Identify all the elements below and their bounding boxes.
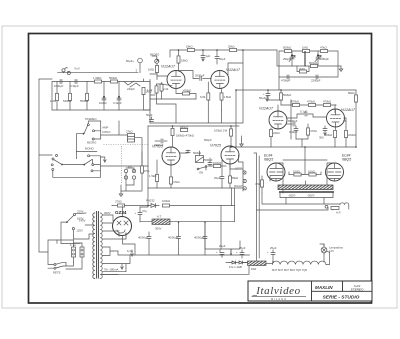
label 3+W STEREO — [351, 284, 364, 292]
resistor 27kΩ pair b — [127, 135, 142, 152]
capacitor 25µF cathode V6 — [220, 160, 224, 188]
label EL84 6BQ5 — [264, 154, 273, 162]
wire from V2 to network — [277, 50, 279, 66]
resistor 100Ω wirewound — [248, 261, 273, 266]
svg-text:10Ω: 10Ω — [251, 267, 256, 271]
svg-text:FONO: FONO — [102, 130, 111, 134]
wire mid join — [147, 188, 149, 206]
svg-text:MONO: MONO — [85, 147, 95, 151]
phono jack P3 — [132, 169, 135, 172]
capacitor 6800pF — [287, 122, 295, 126]
ground sw2 — [100, 157, 106, 162]
trimmer capacitor 25kpF — [289, 51, 295, 66]
heater winding chain — [273, 261, 326, 264]
fuse F1 — [72, 243, 76, 262]
svg-text:50µF: 50µF — [259, 96, 266, 100]
resistor 500kΩ mid — [310, 65, 317, 68]
capacitor 3.3kpF — [294, 126, 298, 139]
svg-text:1µF: 1µF — [206, 54, 211, 58]
wire HT rail — [170, 50, 277, 90]
capacitor 0.1µF coupling — [287, 100, 327, 139]
svg-text:½7025: ½7025 — [152, 145, 163, 149]
svg-text:80kΩ: 80kΩ — [348, 91, 355, 95]
svg-text:-3007-: -3007- — [307, 194, 315, 198]
svg-text:50kpF: 50kpF — [204, 138, 212, 142]
label 70V 180mA arrow — [104, 264, 123, 272]
resistor 18kΩ rail — [187, 49, 194, 52]
wire to speaker — [262, 190, 328, 205]
svg-text:25µF: 25µF — [270, 246, 277, 250]
switch S-tone — [197, 166, 207, 170]
svg-text:3.3kpF: 3.3kpF — [289, 130, 298, 134]
svg-text:500kΩ: 500kΩ — [109, 76, 117, 80]
svg-text:2000pF: 2000pF — [195, 74, 205, 78]
ground mid — [240, 141, 244, 146]
svg-text:470kpF: 470kpF — [281, 79, 291, 83]
capacitor 50µF can — [126, 58, 142, 72]
wire filament 70V — [102, 273, 118, 275]
label Lampadina 12V — [329, 246, 343, 254]
title block box — [248, 281, 372, 301]
svg-text:100kΩ: 100kΩ — [162, 199, 170, 203]
svg-text:F 1A: F 1A — [70, 243, 76, 247]
capacitor 2000pF coupling — [179, 71, 212, 81]
resistor 470Ω cathode — [261, 176, 264, 193]
phono jack P2 — [124, 176, 127, 179]
svg-text:300: 300 — [319, 136, 324, 140]
resistor 68kΩ — [229, 164, 232, 189]
wire bottom long bus — [101, 253, 330, 275]
wire mains lower — [57, 240, 82, 269]
svg-text:500kΩ: 500kΩ — [283, 46, 291, 50]
capacitor 50µF to ground — [215, 50, 219, 64]
wire verticals — [57, 79, 144, 110]
svg-text:1MΩ: 1MΩ — [50, 99, 56, 103]
border frame — [29, 34, 372, 304]
wire sw3 — [39, 155, 84, 177]
resistor 27kΩ pair a — [127, 134, 134, 137]
svg-text:2380pF: 2380pF — [320, 57, 330, 61]
capacitor 25µF V4 cathode — [323, 126, 327, 135]
svg-text:6800pF: 6800pF — [288, 119, 298, 123]
svg-text:2500pF: 2500pF — [203, 158, 213, 162]
svg-text:1MΩ: 1MΩ — [302, 46, 308, 50]
resistor 470Ω — [296, 124, 310, 139]
svg-text:1MΩ: 1MΩ — [148, 68, 154, 72]
svg-text:220kΩ: 220kΩ — [348, 133, 356, 137]
mains switch DPST — [48, 252, 66, 269]
tube V3 half 12AU7 — [269, 111, 287, 129]
resistor 47kΩ — [320, 50, 327, 53]
tube V2 half 12AU7 — [211, 71, 229, 89]
capacitor 25µF b — [236, 250, 244, 258]
resistor 1.5kΩ cathode V1 — [155, 84, 158, 99]
wire feedback — [257, 208, 329, 211]
capacitor 3.3kpF vertical — [117, 96, 121, 100]
tube V1 half 12AU7 — [167, 71, 185, 89]
capacitor 50µF left — [146, 113, 154, 121]
wire sw2 bottom — [53, 176, 100, 178]
svg-text:ON: ON — [199, 171, 203, 175]
svg-text:1.5MΩ: 1.5MΩ — [93, 76, 101, 80]
wire stage bottom bus — [148, 80, 243, 127]
output transformer T2 secondary — [279, 191, 334, 193]
speaker terminal — [325, 205, 328, 208]
jack RIGHT — [243, 187, 246, 190]
resistor 1.5kΩ cathode V5 — [156, 160, 159, 188]
capacitor +47µF 300V — [135, 207, 143, 219]
pot MICRO trimmer — [155, 59, 159, 63]
svg-text:GZ34: GZ34 — [115, 210, 127, 215]
wire row — [268, 100, 336, 105]
wire ground GZ — [123, 236, 136, 255]
svg-text:125V: 125V — [76, 229, 83, 233]
resistor 680kΩ horizontal — [180, 129, 187, 132]
mains selector contact SW5 — [72, 225, 92, 239]
svg-text:70+ 180mA: 70+ 180mA — [104, 268, 119, 272]
svg-text:470kΩ: 470kΩ — [307, 100, 315, 104]
jack LEFT — [243, 171, 246, 174]
phono jack P1 — [124, 169, 127, 172]
tube V8 EL84 — [267, 163, 285, 181]
wire transformer taps — [280, 181, 333, 204]
svg-text:47µ: 47µ — [142, 209, 147, 213]
svg-text:50µF+: 50µF+ — [126, 59, 134, 63]
resistor 22kΩ cathode V3 — [270, 128, 273, 147]
capacitor 470kpF — [287, 75, 289, 79]
svg-text:6,3A: 6,3A — [127, 249, 133, 253]
resistor 100kΩ horizontal — [208, 165, 226, 168]
svg-text:6.8k: 6.8k — [200, 95, 206, 99]
switch SW3 — [51, 155, 63, 171]
tube V5 half 7025 — [162, 147, 180, 165]
svg-text:RETE: RETE — [53, 271, 61, 275]
resistor 100Ω screen a — [289, 173, 303, 176]
capacitor 100kpF — [60, 80, 62, 84]
svg-text:STEREO: STEREO — [85, 117, 97, 121]
svg-text:MILANO: MILANO — [271, 297, 287, 301]
svg-text:27kΩ: 27kΩ — [126, 130, 133, 134]
shield dotted — [104, 144, 149, 146]
tube V7 GZ34 rectifier — [113, 206, 132, 236]
wire sw1 out — [101, 121, 128, 135]
svg-text:300V: 300V — [104, 211, 111, 215]
svg-text:RIGHT: RIGHT — [234, 184, 243, 188]
svg-text:7mV: 7mV — [74, 67, 80, 71]
svg-text:MAXLIN: MAXLIN — [315, 285, 333, 290]
svg-text:470kΩ: 470kΩ — [323, 100, 331, 104]
resistor 470kΩ b — [308, 104, 315, 107]
svg-text:470Ω: 470Ω — [310, 129, 317, 133]
wire B+ vertical right — [221, 206, 231, 256]
wire to preamp — [100, 152, 148, 166]
resistor 680kΩ grid V2 — [207, 82, 210, 110]
svg-text:240pF: 240pF — [127, 87, 135, 91]
capacitor 3300pF — [155, 139, 167, 143]
svg-text:100kΩ: 100kΩ — [213, 161, 221, 165]
resistor 20kΩ rail — [229, 49, 236, 52]
wire phono — [121, 168, 142, 191]
svg-text:18kΩ: 18kΩ — [181, 59, 188, 63]
resistor 470kΩ vertical phono — [141, 152, 144, 190]
label EL84 6BQ5 — [342, 154, 351, 162]
resistor 47kΩ — [170, 165, 173, 189]
svg-text:2.2k: 2.2k — [163, 87, 169, 91]
pilot lamp — [321, 244, 327, 262]
input jack J1 — [62, 68, 68, 72]
svg-text:SERIE - STUDIO: SERIE - STUDIO — [323, 295, 360, 301]
svg-text:40/50µF: 40/50µF — [194, 236, 205, 240]
resistor 220kΩ — [344, 118, 348, 147]
input jack J2 — [67, 71, 70, 74]
svg-text:20kΩ: 20kΩ — [228, 45, 235, 49]
switch SW2 — [83, 155, 94, 172]
resistor A.T. wirewound — [152, 219, 170, 225]
svg-text:550kΩ: 550kΩ — [80, 99, 88, 103]
wire heater bus — [130, 241, 250, 257]
tube V4 half 12AU7 — [327, 109, 345, 127]
svg-text:140V: 140V — [79, 219, 86, 223]
resistor 100Ω screen b — [307, 173, 321, 176]
wire lamp — [320, 244, 330, 254]
wire HT bus mid — [231, 105, 356, 147]
svg-text:½7025: ½7025 — [210, 144, 221, 148]
wire mains — [39, 155, 80, 252]
resistor 100kΩ cathode V4 — [334, 127, 337, 148]
speaker coil — [328, 203, 349, 210]
svg-text:A.T.: A.T. — [157, 215, 162, 219]
wire HT secondary to GZ34 — [102, 215, 126, 255]
transformer T1 secondary winding — [100, 213, 102, 279]
resistor 18kΩ plate V1 — [177, 56, 180, 71]
svg-text:68kΩ: 68kΩ — [232, 176, 239, 180]
wire vertical bus pair — [226, 153, 259, 263]
wire grid feed — [150, 56, 157, 74]
wire filament 6.3A — [102, 251, 130, 272]
capacitor 25µF a — [216, 250, 224, 257]
svg-text:½12AU7: ½12AU7 — [259, 107, 274, 111]
svg-text:PH232: PH232 — [146, 199, 155, 203]
svg-text:½12AU7: ½12AU7 — [161, 65, 176, 69]
capacitor 40/50µF c — [203, 222, 207, 255]
wire jack feed — [230, 155, 243, 191]
svg-text:500kΩ: 500kΩ — [309, 61, 317, 65]
resistor 500kΩ — [284, 50, 291, 53]
node dots — [147, 49, 357, 263]
ground arrow 50uF — [266, 96, 269, 101]
svg-text:3.3kpF: 3.3kpF — [70, 84, 79, 88]
transformer T1 core — [97, 211, 99, 279]
svg-text:470kΩ: 470kΩ — [291, 100, 299, 104]
wire network to next stage — [236, 77, 356, 147]
svg-text:PU: PU — [128, 165, 132, 169]
jack MIDDLE — [243, 179, 246, 182]
svg-text:40/50µF: 40/50µF — [168, 236, 179, 240]
pot 500kΩ balance — [196, 151, 204, 163]
resistor 2.2kΩ cathode V1b — [157, 83, 173, 100]
svg-text:220V: 220V — [77, 210, 84, 214]
resistor 100kΩ — [162, 204, 234, 207]
svg-text:F.G.1 4HB: F.G.1 4HB — [229, 265, 242, 269]
tube V6 half 7025 — [221, 146, 239, 164]
resistor 1MΩ — [302, 50, 309, 53]
capacitor 40/50µF a — [147, 232, 151, 255]
trimmer capacitor 2380pF — [315, 51, 321, 66]
capacitor 2200pF — [316, 75, 318, 79]
wire plate V2 to rail — [228, 63, 243, 75]
diode D1 — [230, 261, 237, 264]
wire mid vertical — [304, 51, 306, 67]
svg-text:2MΩ: 2MΩ — [299, 67, 305, 71]
capacitor 40/50µF b — [177, 222, 181, 255]
resistor 1MΩ vertical — [56, 93, 59, 100]
wire sw1 to sw2 — [76, 134, 83, 152]
svg-text:25µF: 25µF — [214, 176, 221, 180]
resistor 1MΩ grid V1 — [156, 63, 168, 79]
resistor 100kΩ vertical — [230, 129, 233, 136]
wire screens — [289, 160, 321, 175]
resistor 1.5kΩ cathode V2 — [220, 88, 223, 110]
svg-text:A.P.: A.P. — [336, 211, 341, 215]
svg-text:540kΩ: 540kΩ — [63, 99, 71, 103]
svg-text:3.3kpF: 3.3kpF — [113, 101, 122, 105]
svg-text:STEREO: STEREO — [351, 287, 364, 291]
wire B plus — [112, 205, 123, 208]
capacitor 25µF c — [267, 250, 275, 261]
resistor 80kΩ right — [355, 90, 358, 147]
ground tone network — [339, 66, 343, 71]
wire ground bus left — [39, 79, 52, 155]
resistor 270Ω — [112, 204, 148, 207]
svg-text:50µF: 50µF — [146, 113, 153, 117]
capacitor 2500pF — [208, 158, 212, 166]
svg-text:50µF: 50µF — [219, 57, 226, 61]
svg-text:LEFT: LEFT — [235, 167, 242, 171]
svg-text:47kΩ: 47kΩ — [320, 46, 327, 50]
svg-text:40/50µF: 40/50µF — [138, 236, 149, 240]
svg-text:22kΩ: 22kΩ — [273, 131, 280, 135]
resistor 2MΩ — [297, 66, 309, 73]
svg-text:0.1µF: 0.1µF — [300, 110, 307, 114]
svg-text:470k: 470k — [144, 169, 151, 173]
diode PH232 — [148, 204, 159, 208]
svg-text:1.5kΩ: 1.5kΩ — [224, 95, 231, 99]
svg-text:100pF: 100pF — [99, 101, 107, 105]
resistor 500kΩ — [110, 80, 117, 83]
capacitor 50µF electrolytic — [263, 90, 270, 100]
wire EL84 plates — [276, 147, 335, 187]
svg-text:1.5kΩ: 1.5kΩ — [149, 174, 156, 178]
wire sw2 bracket — [76, 151, 100, 177]
svg-text:100Ω: 100Ω — [293, 170, 300, 174]
wire sw1 bracket — [88, 121, 100, 139]
voltage selector switch SW4 — [61, 213, 86, 243]
svg-text:2200pF: 2200pF — [311, 79, 321, 83]
wire bus to output — [205, 222, 235, 249]
capacitor 1µF to ground — [201, 50, 205, 61]
svg-text:25µF: 25µF — [239, 246, 246, 250]
phono jack P4 — [132, 176, 135, 179]
svg-text:100Ω: 100Ω — [308, 170, 315, 174]
svg-text:Italvideo: Italvideo — [255, 285, 301, 297]
resistor 550kΩ vertical — [86, 93, 89, 100]
shield dotted vertical — [121, 146, 123, 184]
svg-text:6N7 6N7 6N7 6N3 7Q5 7Q5: 6N7 6N7 6N7 6N3 7Q5 7Q5 — [272, 268, 307, 272]
node dot trimmer b — [317, 54, 319, 56]
svg-text:18kΩ: 18kΩ — [186, 45, 193, 49]
wire stage rails — [148, 126, 243, 188]
resistor 540kΩ vertical — [69, 93, 72, 100]
fuse F2 — [80, 243, 84, 262]
svg-text:25µF: 25µF — [219, 244, 226, 248]
tube V9 EL84 — [326, 163, 344, 181]
capacitor 100pF vertical — [102, 96, 106, 100]
transformer T1 primary winding — [93, 213, 95, 279]
resistor 180kΩ vertical — [171, 128, 174, 135]
output transformer T2 primary — [278, 185, 333, 190]
resistor 470kΩ horizontal — [176, 89, 196, 100]
svg-text:500kΩ: 500kΩ — [283, 93, 291, 97]
svg-text:180kΩ+470kΩ: 180kΩ+470kΩ — [176, 134, 194, 138]
svg-text:-3007-: -3007- — [288, 194, 296, 198]
label 6.3A arrow — [127, 249, 133, 256]
ground phono — [119, 191, 123, 196]
resistor 470kΩ c — [323, 104, 330, 107]
node dot trimmer a — [291, 54, 293, 56]
svg-text:100kΩ 1W: 100kΩ 1W — [214, 129, 227, 133]
svg-text:6BQ5: 6BQ5 — [264, 158, 273, 162]
resistor 1MΩ right vertical — [142, 87, 150, 110]
capacitor 240pF diagonal — [124, 81, 140, 87]
svg-text:6BQ5: 6BQ5 — [342, 158, 351, 162]
resistor 1.5MΩ — [94, 80, 101, 83]
logo Italvideo — [252, 285, 307, 301]
switch SW1 — [83, 124, 95, 140]
wire top link — [58, 71, 138, 73]
svg-text:680kΩ: 680kΩ — [180, 126, 188, 130]
wire input box — [52, 82, 155, 111]
svg-text:½12AU7: ½12AU7 — [341, 108, 356, 112]
svg-text:500kΩ: 500kΩ — [193, 151, 201, 155]
capacitor 50kpF — [180, 150, 191, 153]
svg-text:300V: 300V — [155, 227, 162, 231]
svg-text:470kΩ: 470kΩ — [183, 89, 191, 93]
wire primary taps — [93, 213, 95, 279]
svg-text:270Ω: 270Ω — [115, 200, 122, 204]
diode D2 — [237, 261, 248, 264]
svg-text:MICRO: MICRO — [87, 141, 97, 145]
svg-text:25kpF: 25kpF — [283, 57, 291, 61]
svg-text:47kΩ: 47kΩ — [173, 180, 180, 184]
resistor 500kΩ vertical — [280, 90, 283, 105]
capacitor 3.3kpF — [75, 80, 77, 84]
wire network frame — [279, 51, 341, 77]
resistor 470kΩ a — [292, 104, 299, 107]
svg-text:100kpF: 100kpF — [54, 84, 64, 88]
wire AT row — [140, 206, 205, 223]
